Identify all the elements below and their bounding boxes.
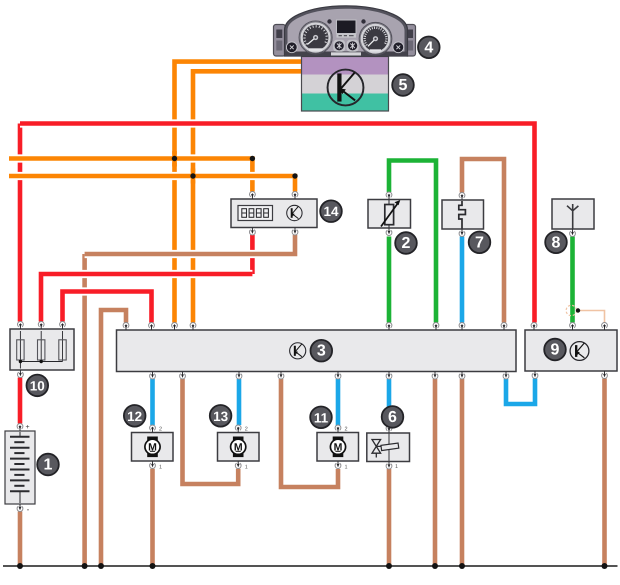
- label 3: [311, 340, 333, 362]
- label 7: [469, 232, 491, 254]
- immobilizer unit 9: [525, 330, 617, 371]
- wire brown unit 3 to ground a: [433, 379, 438, 566]
- wire orange 1 from unit 5 to unit 3: [175, 62, 302, 323]
- wire brown from unit 14 to ground corner: [85, 235, 295, 254]
- odometer strip: [309, 48, 323, 51]
- label 9: [544, 339, 566, 361]
- wire red fuse to battery: [18, 378, 23, 424]
- svg-text:7: 7: [475, 234, 484, 251]
- pin unit9 bottom blue: [532, 371, 538, 378]
- controller unit 3: [117, 330, 517, 372]
- pin fuse10 bottom: [18, 370, 24, 377]
- ground bus line: [3, 565, 618, 567]
- svg-text:13: 13: [213, 409, 229, 424]
- purge valve 6: [367, 433, 410, 462]
- label 5: [392, 74, 414, 96]
- wire green sensor 2 to unit 3: [387, 237, 392, 323]
- pin unit3 bottom blue12: [150, 372, 156, 379]
- label 10: [27, 375, 49, 397]
- svg-text:11: 11: [314, 410, 329, 425]
- pin unit3 bottom blue6: [386, 372, 392, 379]
- pin unit9 top screen: [602, 323, 608, 330]
- svg-text:6: 6: [388, 409, 397, 426]
- pin motor13 bottom 1: [235, 461, 241, 468]
- wire brown unit 3 to motor 13: [183, 379, 239, 484]
- svg-text:2: 2: [245, 427, 248, 433]
- wire red battery feed vertical (under oranges): [18, 124, 23, 322]
- label 14: [320, 200, 342, 222]
- motor symbol M of 13: [233, 437, 244, 458]
- pin fuse10 top 1: [18, 322, 24, 329]
- node orange junction C: [190, 173, 195, 178]
- svg-text:-: -: [27, 505, 30, 514]
- label 12: [124, 405, 146, 427]
- battery 1: [5, 431, 35, 504]
- wire blue unit 3 to motor 13: [237, 379, 242, 425]
- ground node brown b: [98, 563, 104, 569]
- node orange corner D: [292, 173, 297, 178]
- svg-text:9: 9: [551, 342, 560, 359]
- pin motor12 top 2: [150, 425, 156, 432]
- antenna unit 8: [552, 199, 594, 229]
- fuel level sensor 2: [368, 200, 411, 229]
- pin valve6 top: [386, 426, 392, 433]
- svg-text:+: +: [25, 424, 29, 431]
- ground node unit9: [602, 563, 608, 569]
- label 2: [395, 232, 417, 254]
- wire brown unit 7 to unit 3: [462, 159, 504, 323]
- wire brown ground from unit 14 (vertical, under reds): [82, 254, 87, 566]
- pin valve6 bottom 1: [386, 462, 392, 469]
- pin unit3 bottom blue9: [503, 372, 509, 379]
- pin motor12 bottom 1: [150, 461, 156, 468]
- pin unit3 bottom blue11: [335, 372, 341, 379]
- display 8888 of unit 14: [238, 206, 273, 221]
- pin unit3 bottom gnd a: [432, 372, 438, 379]
- svg-text:1: 1: [245, 465, 248, 471]
- pin unit14 bottom 1: [250, 228, 256, 235]
- label 8: [545, 232, 567, 254]
- label 11: [310, 407, 332, 429]
- svg-text:2: 2: [159, 427, 162, 433]
- pin motor11 top 2: [335, 425, 341, 432]
- motor symbol M of 11: [333, 437, 344, 458]
- fuse box 10: [10, 329, 74, 370]
- wire green sensor 8 to unit 9: [570, 237, 575, 323]
- valve symbol: [388, 434, 390, 462]
- pin unit14 bottom 2: [292, 228, 298, 235]
- pin sensor7 top: [459, 193, 465, 200]
- pin sensor2 bottom: [386, 228, 392, 235]
- wire blue unit 3 to valve 6: [387, 379, 392, 426]
- wire brown unit 3 pin to ground: [101, 310, 126, 566]
- svg-text:2: 2: [345, 427, 348, 433]
- wire orange junction patch 2: [191, 169, 196, 184]
- ground node unit3 b: [459, 563, 465, 569]
- op symbol K in unit 9: [570, 342, 589, 361]
- svg-text:14: 14: [323, 204, 339, 219]
- pin unit3 top brown2: [501, 323, 507, 330]
- pin unit3 top brown: [123, 323, 129, 330]
- label 6: [382, 406, 404, 428]
- pin unit9 bottom ground: [602, 371, 608, 378]
- antenna symbol: [567, 204, 578, 229]
- wire red unit 14 to fuse unit 10: [41, 274, 252, 322]
- pin battery positive: [17, 424, 23, 431]
- trip computer unit 14: [231, 199, 317, 228]
- wire brown unit 3 to motor 11: [281, 379, 338, 487]
- speed sensor 7: [442, 200, 484, 229]
- node orange corner B: [250, 156, 255, 161]
- op symbol K in unit 3: [290, 343, 306, 359]
- wire orange 2 from unit 5 to unit 3: [193, 71, 302, 322]
- motor 13: [218, 433, 260, 462]
- svg-text:1: 1: [395, 464, 398, 470]
- instrument cluster 4: [274, 25, 286, 57]
- wire blue unit 3 to unit 9 U-link: [506, 379, 535, 405]
- motor 12: [132, 433, 174, 462]
- ground node valve6: [386, 563, 392, 569]
- pin sensor2 top: [386, 192, 392, 199]
- svg-text:5: 5: [399, 77, 408, 94]
- pin sensor7 bottom: [459, 229, 465, 236]
- pin unit3 bottom brn13: [180, 372, 186, 379]
- wire shielding thin link on green wire to unit 9: [578, 311, 605, 323]
- svg-text:1: 1: [345, 465, 348, 471]
- pin motor13 top 2: [235, 425, 241, 432]
- pin motor11 bottom 1: [335, 461, 341, 468]
- wire brown unit 3 to ground b: [460, 379, 465, 566]
- pin unit3 top orange1: [172, 323, 178, 330]
- motor symbol M of 12: [147, 437, 158, 458]
- svg-text:10: 10: [30, 378, 45, 393]
- svg-text:12: 12: [127, 409, 142, 424]
- wire red from unit 14 pin (under brown): [250, 235, 255, 274]
- pin unit3 bottom blue13: [236, 372, 242, 379]
- svg-text:2: 2: [402, 235, 411, 252]
- svg-text:1: 1: [159, 465, 162, 471]
- wire brown battery negative to ground: [18, 512, 23, 567]
- wire brown valve 6 to ground: [387, 469, 392, 566]
- svg-text:1: 1: [44, 457, 53, 474]
- op symbol big K in module 5: [328, 70, 364, 106]
- ground node battery: [17, 563, 23, 569]
- node dashed screen circle: [566, 305, 576, 315]
- label 1: [37, 454, 59, 476]
- pin fuse10 top 3: [60, 322, 66, 329]
- rheostat symbol: [388, 200, 390, 205]
- pin unit3 top green1: [386, 323, 392, 330]
- pin unit3 bottom brn11: [278, 372, 284, 379]
- wire orange horizontal 2 to unit 14: [9, 176, 295, 192]
- label 4: [418, 37, 440, 59]
- node junction on green wire: [576, 308, 580, 312]
- pin unit9 top green: [570, 323, 576, 330]
- pin unit3 top blue: [459, 323, 465, 330]
- wire brown unit 9 to ground: [602, 379, 607, 567]
- pin unit3 bottom gnd b: [459, 372, 465, 379]
- wire blue unit 3 to motor 11: [336, 379, 341, 426]
- pin unit14 top 1: [250, 192, 256, 199]
- wire red main top horizontal to unit 9: [20, 124, 535, 323]
- svg-text:3: 3: [317, 343, 326, 360]
- wire orange junction patch 1: [172, 151, 177, 167]
- pin unit3 top green2: [433, 323, 439, 330]
- pin unit3 top red: [149, 323, 155, 330]
- svg-text:4: 4: [424, 39, 433, 56]
- ground node unit3 a: [432, 563, 438, 569]
- indicator module 5 (striped): [302, 57, 389, 75]
- ground node brown a: [82, 563, 88, 569]
- wire blue sensor 7 to unit 3: [460, 237, 465, 323]
- svg-text:8: 8: [552, 234, 561, 251]
- node orange junction A: [172, 156, 177, 161]
- pin fuse10 top 2: [38, 322, 44, 329]
- motor 11: [317, 433, 359, 462]
- wire red fuse unit 10 to unit 3: [63, 292, 152, 323]
- pin battery negative: [17, 504, 23, 511]
- ground node motor12: [150, 563, 156, 569]
- wire green sensor 2 top to unit 3: [389, 161, 436, 323]
- pin unit3 top orange2: [190, 323, 196, 330]
- pin unit9 top red: [531, 323, 537, 330]
- op symbol K in unit 14: [287, 205, 302, 220]
- meander symbol: [459, 201, 466, 229]
- label 13: [210, 405, 232, 427]
- pin unit14 top 2: [292, 192, 298, 199]
- wire blue unit 3 to motor 12: [150, 379, 155, 425]
- wire brown motor 12 to ground: [150, 469, 155, 566]
- pin antenna bottom: [570, 229, 576, 236]
- wire orange horizontal 1 to unit 14: [9, 159, 252, 192]
